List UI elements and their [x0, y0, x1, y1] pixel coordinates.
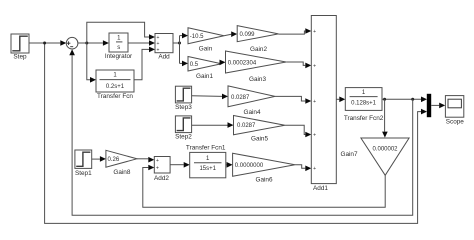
wire Gain3 to Add1 input 2	[286, 62, 311, 68]
mux (black bar)	[427, 94, 431, 117]
svg-text:Step1: Step1	[75, 170, 92, 177]
block Add1 (5-input sum)	[311, 16, 336, 193]
svg-text:+: +	[157, 41, 160, 47]
wire Gain5 to Add1 input 4	[285, 125, 311, 137]
svg-text:0.128s+1: 0.128s+1	[351, 101, 377, 107]
svg-text:-10.5: -10.5	[190, 34, 204, 40]
gain Gain3 (0.0002304)	[226, 51, 287, 83]
wire Step1 to Gain8	[92, 156, 106, 162]
gain Gain1 (0.5)	[188, 57, 221, 80]
svg-text:Transfer Fcn2: Transfer Fcn2	[344, 115, 384, 122]
svg-text:Gain2: Gain2	[250, 46, 267, 53]
svg-text:0.0000000: 0.0000000	[235, 163, 264, 169]
block Add2 (2-input sum)	[154, 157, 170, 183]
svg-text:0.0287: 0.0287	[231, 95, 250, 101]
wire Transfer Fcn1 to Gain6	[226, 162, 233, 168]
svg-text:+: +	[156, 158, 159, 164]
svg-text:Gain6: Gain6	[255, 177, 272, 184]
svg-text:0.26: 0.26	[108, 157, 120, 163]
block Transfer Fcn1 1/(15s+1) label above	[186, 144, 226, 177]
block Integrator 1/s	[105, 33, 133, 60]
wire Step3 to Gain4	[192, 94, 228, 100]
gain Gain4 (0.0287)	[228, 86, 275, 116]
gain Gain (-10.5)	[188, 28, 224, 53]
wire Transfer Fcn output to Add input 3	[134, 47, 155, 80]
wire Mux to Scope	[431, 103, 445, 109]
svg-text:Add2: Add2	[154, 175, 169, 182]
gain Gain2 (0.099)	[237, 26, 278, 53]
svg-text:Gain4: Gain4	[243, 109, 260, 116]
wire Gain8 to Add2 input 1	[137, 157, 154, 163]
svg-text:0.099: 0.099	[240, 32, 256, 38]
svg-text:s: s	[117, 45, 120, 51]
wire outer feedback loop to sum minus input	[69, 49, 412, 215]
svg-text:Integrator: Integrator	[105, 53, 133, 60]
wire from junction down to Transfer Fcn input	[87, 43, 96, 83]
wire Integrator output to Add input 2	[128, 40, 155, 46]
svg-text:+: +	[313, 132, 316, 138]
gain Gain6 (0.0000000)	[233, 153, 295, 183]
block Step3	[175, 86, 192, 111]
wire Gain to Gain2	[224, 31, 237, 37]
wire Sum output to Integrator with junction	[78, 40, 109, 46]
block Add (3-input sum)	[155, 34, 173, 61]
svg-text:0.0002304: 0.0002304	[228, 60, 257, 66]
svg-text:0.000002: 0.000002	[372, 146, 398, 152]
wire Transfer Fcn2 junction down into Gain7	[382, 99, 388, 137]
svg-text:Gain5: Gain5	[251, 136, 268, 143]
block Transfer Fcn 1/(0.2s+1)	[96, 70, 134, 100]
svg-text:+: +	[157, 47, 160, 53]
svg-text:Step2: Step2	[175, 134, 192, 141]
svg-text:0.0287: 0.0287	[237, 123, 256, 129]
svg-text:+: +	[313, 99, 316, 105]
wire Add1 output to Transfer Fcn2	[336, 97, 345, 103]
wire Add2 output to Transfer Fcn1	[170, 162, 190, 168]
block Step2	[175, 116, 192, 141]
svg-text:Add1: Add1	[313, 185, 328, 192]
svg-text:Gain1: Gain1	[196, 73, 213, 80]
wire Gain1 to Gain3	[220, 60, 226, 66]
svg-text:Scope: Scope	[446, 118, 465, 125]
block Step	[11, 34, 29, 61]
svg-text:Step: Step	[13, 54, 27, 61]
wire bypass from junction up over Integrator to Add input 1	[87, 22, 155, 43]
svg-text:Step3: Step3	[175, 104, 192, 111]
svg-text:15s+1: 15s+1	[199, 166, 216, 172]
gain Gain5 (0.0287)	[234, 116, 285, 143]
svg-text:0.5: 0.5	[190, 62, 199, 68]
svg-text:+: +	[313, 29, 316, 35]
svg-text:Add: Add	[158, 54, 170, 61]
gain Gain7 (0.000002, pointing down)	[340, 138, 409, 175]
block Step1	[75, 150, 92, 177]
svg-text:+: +	[313, 166, 316, 172]
wire Gain4 to Add1 input 3	[275, 96, 311, 103]
svg-text:Transfer Fcn: Transfer Fcn	[97, 93, 133, 100]
wire Gain2 to Add1 input 1	[278, 28, 311, 34]
wire Gain7 output feedback to Add2 input 2	[143, 165, 385, 208]
sum block (circle, + -)	[66, 37, 78, 49]
wire Gain6 to Add1 input 5	[295, 165, 311, 171]
svg-text:+: +	[313, 63, 316, 69]
svg-text:Gain3: Gain3	[249, 76, 266, 83]
wire Step2 to Gain5	[192, 122, 234, 128]
svg-text:0.2s+1: 0.2s+1	[106, 84, 125, 90]
svg-text:Gain8: Gain8	[113, 169, 130, 176]
block Scope	[445, 96, 464, 126]
wire Step output to Sum with branch down	[29, 40, 427, 223]
svg-text:+: +	[156, 166, 159, 172]
gain Gain8 (0.26)	[106, 150, 137, 176]
wire Transfer Fcn2 output to Mux with junctions	[382, 97, 427, 103]
svg-text:Gain7: Gain7	[340, 151, 357, 158]
svg-text:Transfer Fcn1: Transfer Fcn1	[186, 144, 226, 151]
svg-text:Gain: Gain	[199, 46, 213, 53]
block Transfer Fcn2 1/(0.128s+1)	[344, 88, 384, 123]
wire Add output branching to Gain and Gain1	[173, 33, 188, 66]
